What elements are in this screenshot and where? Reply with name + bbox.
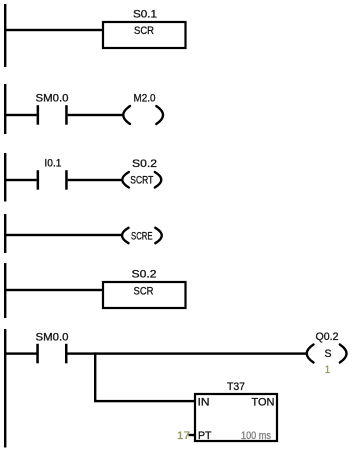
svg-text:PT: PT [198,430,212,442]
wire N3 rail to contact [4,179,37,181]
svg-text:T37: T37 [227,381,245,393]
coil SCRT S0.2 [122,172,161,188]
wire stub 17 to PT pin [189,434,196,436]
wire N5 rail to SCR box [4,289,103,291]
svg-text:IN: IN [198,397,210,409]
timer T37 box (TON) [195,394,277,442]
svg-text:1: 1 [325,364,330,376]
wire N1 rail to SCR box [4,29,103,31]
left power rail network 1 [4,4,6,67]
svg-text:S0.2: S0.2 [132,158,157,170]
svg-text:100 ms: 100 ms [241,430,271,442]
svg-text:17: 17 [177,430,190,442]
left power rail network 5 [4,263,6,318]
svg-text:M2.0: M2.0 [134,92,156,104]
contact SM0.0 (N6, normally open) [36,344,67,364]
svg-text:I0.1: I0.1 [44,158,61,170]
svg-text:S0.2: S0.2 [132,269,157,281]
svg-text:SCR: SCR [134,286,154,298]
svg-text:SCR: SCR [134,25,154,37]
left power rail network 2 [4,84,6,134]
box SCR S0.2 (U2) [103,282,186,308]
svg-text:S0.1: S0.1 [133,9,157,21]
coil Q0.2 set (S) [307,345,347,363]
left power rail network 4 [4,214,6,253]
wire N2 contact to coil [68,114,124,116]
contact SM0.0 (normally open) [37,105,68,125]
svg-text:SCRT: SCRT [130,175,153,187]
wire N6 rail to contact [4,352,37,354]
wire branch vertical at junction [94,352,96,402]
left power rail network 6 [4,329,6,448]
wire branch horizontal to timer IN [94,400,195,402]
left power rail network 3 [4,153,6,202]
svg-text:S: S [325,348,332,360]
svg-text:SM0.0: SM0.0 [36,92,69,104]
wire N4 rail to coil [4,234,122,236]
svg-text:SM0.0: SM0.0 [36,332,69,344]
svg-text:SCRE: SCRE [131,231,153,243]
coil M2.0 [123,106,163,124]
box SCR S0.1 (U1) [103,22,186,48]
svg-text:Q0.2: Q0.2 [316,331,339,343]
coil SCRE [122,228,162,243]
wire N6 contact to set coil [68,352,307,354]
wire N2 rail to contact [4,114,37,116]
wire N3 contact to coil [68,179,123,181]
svg-text:TON: TON [252,397,275,409]
contact I0.1 (normally open) [37,170,68,190]
